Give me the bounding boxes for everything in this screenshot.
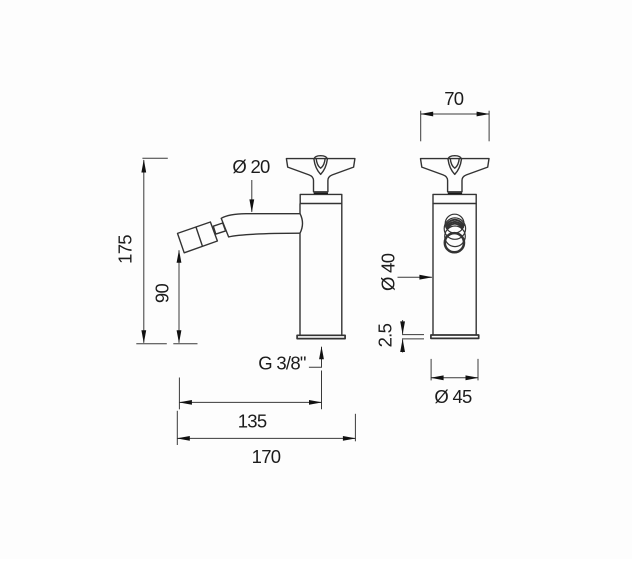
baseline tick right (173, 343, 197, 345)
svg-text:70: 70 (444, 88, 464, 109)
cross handle U1 (side view) (286, 159, 355, 192)
cartridge cap (side view) (300, 194, 342, 203)
dim 2.5 lower arrow (402, 340, 404, 353)
dim 135 line (179, 401, 321, 403)
handle boss oval outer (side view) (314, 156, 328, 175)
svg-text:175: 175 (115, 235, 136, 264)
spout to body fillet (300, 214, 303, 234)
dim Ø20 leader arrow (251, 180, 253, 212)
G3/8 leader with arrow (309, 347, 322, 367)
svg-text:Ø 45: Ø 45 (434, 386, 472, 407)
aerator head (side view) (178, 222, 218, 253)
dim 70 extension right (488, 111, 490, 142)
dim 90 line (178, 250, 180, 342)
svg-text:2.5: 2.5 (374, 323, 395, 347)
handle boss oval inner (front view) (450, 159, 459, 168)
aerator head divider line (196, 227, 203, 247)
dim 2.5 upper arrow (402, 320, 404, 334)
dim 170 extension right (354, 414, 356, 442)
dim 175 top extension tick (142, 157, 167, 159)
dim 135 extension left (178, 378, 180, 410)
aerator front circle third (445, 226, 466, 247)
svg-text:Ø 40: Ø 40 (378, 253, 399, 291)
aerator front circle top (445, 214, 464, 233)
dim Ø45 extension right (477, 359, 479, 381)
dim Ø40 leader arrow (398, 276, 432, 278)
dim 70 line (421, 113, 489, 115)
cartridge cap (front view) (433, 194, 476, 203)
svg-text:G 3/8": G 3/8" (258, 353, 306, 374)
aerator neck (213, 223, 225, 234)
spout (side view) (221, 214, 300, 237)
handle boss oval outer (front view) (448, 156, 462, 175)
dim Ø45 extension left (430, 359, 432, 381)
handle base shadow line (side view) (314, 193, 328, 195)
dim 70 extension left (420, 111, 422, 142)
base flange (side view) (297, 335, 345, 338)
handle base shadow line (front view) (448, 193, 462, 195)
svg-text:90: 90 (151, 284, 172, 304)
dim 2.5 extension top (402, 334, 424, 336)
handle boss oval inner (side view) (316, 159, 325, 168)
dim Ø45 line (431, 377, 478, 379)
dim 170 extension left (176, 411, 178, 445)
dim 2.5 extension bottom (402, 338, 424, 340)
dim 170 line (177, 437, 355, 439)
dim 175 line (143, 160, 145, 343)
aerator front knurl arc band (446, 220, 464, 226)
faucet body (front view) (433, 204, 476, 336)
cross handle (front view) (421, 156, 490, 195)
faucet body (side view) (300, 204, 342, 336)
aerator front face circle (445, 233, 464, 252)
dim 135 extension right (321, 371, 323, 410)
svg-text:135: 135 (238, 410, 267, 431)
svg-text:Ø 20: Ø 20 (232, 156, 270, 177)
svg-text:170: 170 (252, 446, 281, 467)
base flange (front view) (431, 335, 479, 338)
aerator front circle second (444, 218, 465, 239)
baseline tick left (136, 343, 167, 345)
